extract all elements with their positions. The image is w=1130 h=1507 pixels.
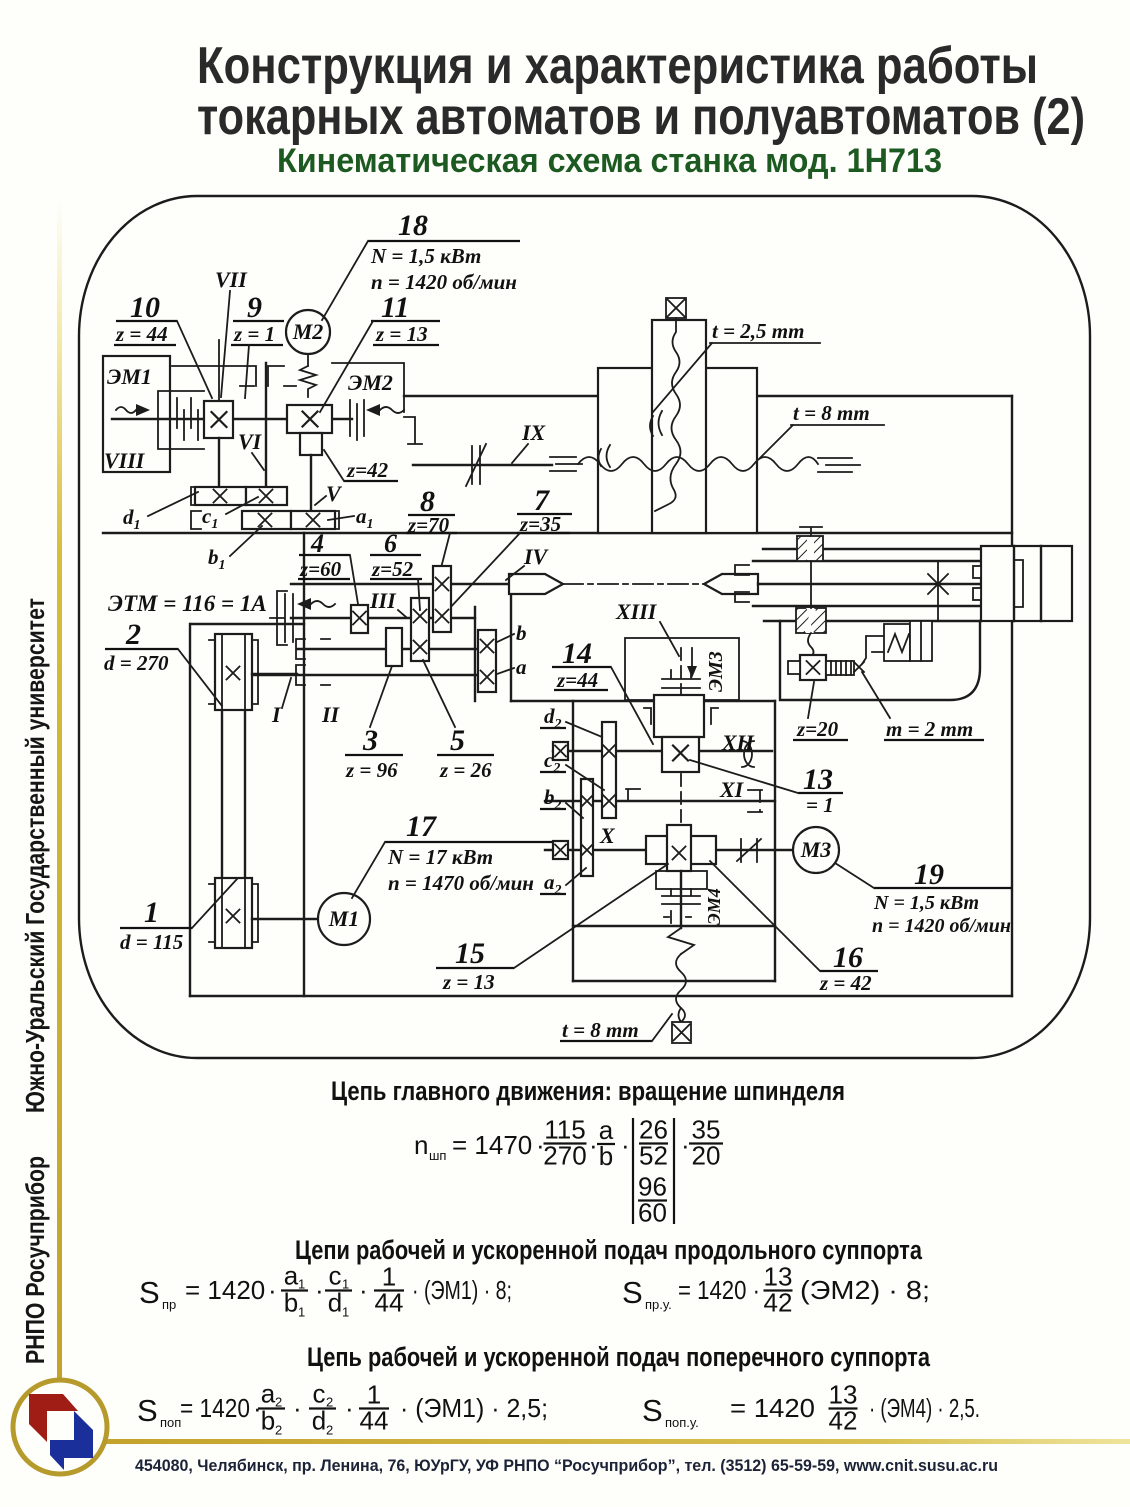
belt compartment top y=624	[191, 623, 304, 625]
svg-text:11: 11	[381, 291, 409, 324]
cross slide rail 4	[764, 620, 981, 622]
label t=8mm (top)	[760, 401, 884, 458]
EM2 feed arrow (left pointing)	[366, 404, 404, 416]
svg-text:Цепь рабочей и ускоренной пода: Цепь рабочей и ускоренной подач поперечн…	[307, 1342, 931, 1372]
svg-text:VI: VI	[238, 429, 263, 454]
vertical screw t=2.5mm (wavy)	[650, 318, 681, 511]
rack end pin	[854, 662, 864, 672]
tailstock center cone (left pointing)	[704, 574, 758, 594]
label d1	[123, 492, 198, 533]
EM2 housing	[332, 363, 404, 412]
svg-text:18: 18	[398, 209, 428, 242]
apron body outline	[780, 621, 980, 700]
formula S_pop	[137, 1379, 548, 1438]
svg-text:поп.у.: поп.у.	[665, 1415, 699, 1430]
formula S_pr	[139, 1261, 512, 1320]
EM2 clutch block (gear 11)	[287, 405, 332, 433]
EM3 housing box	[625, 638, 739, 700]
svg-text:4: 4	[310, 529, 324, 558]
shaft VII upper stem	[218, 340, 220, 401]
lock asterisk on ram	[926, 574, 950, 594]
tailstock body	[973, 546, 1072, 621]
label 17 / motor M1 data	[352, 810, 560, 898]
svg-text:·: ·	[359, 1275, 368, 1305]
svg-text:ЭМ1: ЭМ1	[107, 364, 152, 389]
label 11 / z=13	[320, 291, 440, 412]
svg-text:I: I	[271, 702, 282, 727]
formula n_shp	[414, 1115, 723, 1228]
label c1	[202, 497, 258, 532]
ETM feed arrow	[297, 598, 335, 610]
svg-text:РНПО Росучприбор: РНПО Росучприбор	[20, 1156, 50, 1364]
shaft XI	[545, 800, 775, 802]
sleeve side bearing marks	[644, 708, 718, 724]
label 10 / z=44	[114, 291, 212, 398]
svg-text:z = 96: z = 96	[345, 758, 398, 782]
svg-text:52: 52	[639, 1141, 668, 1171]
shaft III	[291, 617, 475, 619]
swap gears b/a stack	[478, 630, 496, 692]
logo blue arrow shape	[50, 1411, 93, 1470]
bearing bracket left of row1	[191, 487, 201, 529]
slip clutch on shaft X to M3	[737, 839, 761, 862]
svg-text:IX: IX	[521, 420, 547, 445]
gear row 1 right	[246, 487, 287, 505]
svg-text:z=20: z=20	[796, 717, 839, 741]
label 6 / z=52	[370, 529, 422, 610]
svg-text:·: ·	[293, 1393, 302, 1423]
svg-text:1: 1	[342, 1277, 349, 1292]
svg-text:2: 2	[326, 1423, 333, 1438]
EM4 clutch plates symbol	[662, 889, 700, 904]
svg-text:·: ·	[589, 1130, 598, 1160]
bearing bracket right of EM2	[404, 417, 422, 444]
EM4 clutch core	[667, 825, 691, 871]
label 18 / motor data	[322, 209, 520, 320]
label 3 / z=96	[345, 666, 403, 782]
svg-text:10: 10	[130, 291, 160, 324]
svg-text:15: 15	[455, 937, 485, 970]
shaft V vertical	[310, 455, 312, 511]
nut block lower (hatched)	[796, 608, 826, 633]
label 8 / z=70	[406, 485, 457, 568]
shaft VIII horizontal	[112, 418, 352, 420]
motor M2 stem and coupling zigzag	[300, 354, 316, 397]
svg-text:b: b	[599, 1141, 613, 1171]
svg-text:S: S	[642, 1393, 663, 1428]
spindle IV axis (left solid part)	[291, 583, 509, 585]
svg-text:2: 2	[275, 1395, 282, 1410]
svg-text:· (ЭМ1) · 2,5;: · (ЭМ1) · 2,5;	[400, 1393, 548, 1423]
svg-text:М3: М3	[800, 837, 832, 862]
label 9 / z=1	[231, 291, 284, 398]
gearbox top brackets	[172, 366, 296, 386]
label a	[497, 655, 527, 679]
svg-text:t = 8 mm: t = 8 mm	[793, 401, 870, 425]
gear quadrant inner wall x=475	[474, 607, 476, 701]
machine body outline (rounded contour)	[79, 196, 1090, 1058]
spindle collet cone (right pointing)	[509, 574, 563, 594]
svg-text:z=52: z=52	[371, 557, 414, 581]
shaft X	[545, 849, 793, 851]
svg-text:5: 5	[450, 724, 465, 757]
crossed anchor box (bottom)	[672, 1022, 691, 1043]
svg-text:·: ·	[268, 1275, 277, 1305]
EM1 housing box	[103, 356, 170, 472]
svg-text:3: 3	[362, 724, 378, 757]
EM1 feed arrow	[116, 404, 150, 416]
cross slide rail 1	[763, 548, 981, 550]
headstock wide block	[598, 368, 757, 533]
label b1	[208, 526, 262, 573]
shaft I	[252, 674, 478, 676]
formula S_pop.u	[642, 1380, 980, 1436]
left jaw brackets	[735, 565, 749, 602]
gear 4 (z=60) on shaft III	[351, 605, 368, 633]
yellow vertical sidebar line	[57, 200, 62, 1380]
gear z=42 below EM2 clutch	[300, 433, 322, 455]
svg-text:Цепи рабочей и ускоренной пода: Цепи рабочей и ускоренной подач продольн…	[295, 1235, 923, 1265]
slip clutch on shaft IX	[466, 444, 486, 486]
thread symbol left of leadscrew	[550, 457, 582, 471]
svg-text:М1: М1	[328, 906, 360, 931]
bearing brackets right ends XI/XII	[626, 789, 762, 812]
svg-text:шп: шп	[429, 1148, 446, 1163]
shaft pulley2 to gearbox	[252, 673, 297, 675]
svg-text:z=42: z=42	[346, 458, 389, 482]
logo red arrow shape	[29, 1394, 78, 1442]
svg-text:VIII: VIII	[104, 448, 146, 473]
svg-text:14: 14	[562, 637, 592, 670]
svg-text:z = 13: z = 13	[442, 970, 495, 994]
label z=20	[793, 682, 848, 741]
gear row 1 left (c1 gear)	[195, 487, 246, 505]
svg-text:t = 8 mm: t = 8 mm	[562, 1018, 639, 1042]
gear row 2 left (b1 gear)	[242, 511, 291, 529]
EM1 clutch housing bracket	[158, 391, 204, 449]
svg-text:М2: М2	[292, 319, 324, 344]
svg-text:c: c	[329, 1261, 342, 1291]
svg-text:44: 44	[375, 1288, 404, 1318]
label a1	[328, 504, 374, 532]
EM3 engage arrow	[687, 648, 697, 678]
nut block upper (hatched)	[797, 536, 823, 561]
svg-text:пр: пр	[162, 1297, 176, 1312]
EM4 lower housing	[656, 871, 707, 889]
svg-text:ЭМ3: ЭМ3	[705, 651, 727, 692]
gear 6/5 stack (z=52 / z=26)	[411, 598, 429, 661]
svg-text:·: ·	[621, 1130, 630, 1160]
university logo: yellow ring	[13, 1380, 107, 1474]
screw coupling zigzag	[668, 928, 694, 954]
label a2	[540, 868, 586, 898]
svg-text:·: ·	[681, 1130, 690, 1160]
svg-text:270: 270	[543, 1141, 586, 1171]
svg-text:16: 16	[833, 941, 863, 974]
svg-text:Южно-Уральский Государственный: Южно-Уральский Государственный университ…	[20, 598, 50, 1113]
svg-text:V: V	[326, 481, 343, 506]
svg-text:поп: поп	[160, 1415, 181, 1430]
svg-text:t = 2,5 mm: t = 2,5 mm	[712, 319, 804, 343]
svg-text:z = 13: z = 13	[375, 322, 428, 346]
tailstock ram axis	[758, 583, 1060, 585]
svg-text:IV: IV	[523, 544, 550, 569]
svg-text:42: 42	[764, 1288, 793, 1318]
svg-text:z = 26: z = 26	[439, 758, 492, 782]
gear 3 (z=96) block on shaft II	[386, 628, 402, 666]
svg-text:N = 17 кВт: N = 17 кВт	[387, 845, 493, 869]
svg-text:b: b	[516, 621, 527, 645]
svg-text:d: d	[312, 1406, 326, 1436]
svg-text:III: III	[369, 588, 397, 613]
svg-text:2: 2	[326, 1395, 333, 1410]
swap gear column rect G1 (d2/c2)	[602, 722, 616, 818]
spring preload unit	[862, 621, 932, 664]
label XIII	[615, 599, 679, 656]
svg-text:Кинематическая схема станка мо: Кинематическая схема станка мод. 1Н713	[277, 142, 942, 180]
svg-text:n = 1470 об/мин: n = 1470 об/мин	[388, 871, 534, 895]
label III	[369, 588, 406, 617]
bearing bracket right of row2	[330, 511, 339, 529]
svg-text:z = 44: z = 44	[115, 322, 168, 346]
svg-text:19: 19	[914, 858, 944, 891]
svg-text:17: 17	[406, 810, 437, 843]
svg-text:20: 20	[692, 1141, 721, 1171]
motor M2	[286, 310, 330, 354]
screw wavy vertical (t=8mm bottom)	[676, 954, 686, 1022]
svg-text:S: S	[139, 1275, 160, 1310]
ETM clutch brackets on shaft III	[270, 591, 293, 645]
label 15 / z=13	[436, 864, 668, 994]
shaft VII vertical	[218, 438, 220, 487]
headstock tower column	[652, 320, 706, 533]
yellow horizontal footer line	[106, 1439, 1130, 1444]
pulley 2 (d=270, top)	[209, 634, 258, 710]
svg-text:1: 1	[298, 1277, 305, 1292]
cross screw vertical	[808, 561, 814, 657]
svg-text:d: d	[328, 1288, 342, 1318]
label 19 / motor M3 data	[835, 858, 1012, 937]
label z=42	[324, 450, 398, 482]
svg-text:= 1: = 1	[806, 793, 834, 817]
svg-text:z=44: z=44	[556, 668, 598, 692]
coupling arcs right of clutch	[742, 741, 754, 767]
housing left wall x=190	[189, 624, 191, 996]
svg-text:b: b	[284, 1288, 298, 1318]
svg-text:токарных автоматов и полуавтом: токарных автоматов и полуавтоматов (2)	[197, 88, 1085, 146]
feed box top wall y=701	[511, 700, 775, 702]
svg-text:XIII: XIII	[615, 599, 658, 624]
svg-text:60: 60	[638, 1198, 667, 1228]
cross slide rail 2	[753, 560, 981, 562]
gear row 2 right (a1 gear)	[291, 511, 335, 529]
feed box shelf y=926	[573, 925, 775, 927]
svg-text:a: a	[284, 1261, 299, 1291]
shaft-end gear XII left	[553, 742, 568, 760]
label 4 / z=60	[298, 529, 358, 604]
leadscrew t=8mm horizontal wavy line	[578, 445, 818, 471]
pulley 1 (d=115, bottom)	[209, 878, 258, 948]
svg-text:X: X	[599, 823, 616, 848]
svg-text:6: 6	[384, 529, 397, 558]
svg-text:= 1420: = 1420	[180, 1393, 250, 1423]
svg-text:1: 1	[342, 1305, 349, 1320]
svg-text:m = 2 mm: m = 2 mm	[886, 717, 973, 741]
EM4 clutch wings	[646, 836, 716, 864]
EM4 lower marks	[664, 911, 691, 923]
svg-text:VII: VII	[215, 267, 248, 292]
cross slide rail 3	[753, 605, 981, 607]
svg-text:9: 9	[247, 291, 262, 324]
svg-text:S: S	[622, 1275, 643, 1310]
svg-text:N = 1,5 кВт: N = 1,5 кВт	[873, 892, 979, 914]
svg-text:XII: XII	[721, 730, 755, 755]
label b2	[540, 785, 583, 818]
svg-text:= 1420: = 1420	[730, 1393, 815, 1423]
shaft XII	[553, 750, 772, 752]
screw T-handle	[800, 527, 822, 536]
partition wall x=304 (belt compartment)	[303, 533, 305, 996]
swap gear column rect G2 (b2/a2)	[581, 779, 593, 876]
motor M1	[318, 893, 370, 945]
belt (two vertical runs)	[222, 640, 245, 940]
svg-text:· (ЭМ1) · 8;: · (ЭМ1) · 8;	[412, 1275, 512, 1305]
label V	[315, 481, 343, 506]
label t=8mm (bottom)	[560, 1014, 672, 1042]
label c2	[540, 748, 604, 790]
svg-text:2: 2	[275, 1423, 282, 1438]
formula S_pr.u	[622, 1262, 930, 1318]
svg-text:454080, Челябинск, пр. Ленина,: 454080, Челябинск, пр. Ленина, 76, ЮУрГУ…	[135, 1456, 998, 1475]
housing main horizontal wall y=533	[103, 532, 1012, 534]
label VII	[215, 267, 248, 397]
svg-text:1: 1	[144, 896, 159, 929]
EM3 clutch plates symbol	[662, 670, 700, 688]
gear block 10 on shaft VII	[204, 401, 233, 438]
label b	[497, 621, 527, 645]
saddle post line	[937, 562, 939, 620]
svg-text:b: b	[261, 1406, 275, 1436]
label VI	[238, 429, 264, 470]
svg-text:п = 1420 об/мин: п = 1420 об/мин	[371, 270, 517, 294]
bearing brackets shafts I/II	[296, 639, 330, 685]
svg-text:13: 13	[803, 763, 833, 796]
svg-text:ЭМ2: ЭМ2	[348, 370, 393, 395]
label 7 / z=35	[448, 484, 572, 610]
housing bottom wall y=996	[190, 995, 1012, 997]
svg-text:Конструкция и характеристика р: Конструкция и характеристика работы	[197, 37, 1038, 95]
shaft VI vertical	[265, 363, 267, 487]
rack m=2mm	[826, 661, 854, 675]
svg-text:(ЭМ2) · 8;: (ЭМ2) · 8;	[800, 1275, 930, 1305]
svg-text:ЭМ4: ЭМ4	[704, 888, 724, 925]
svg-text:·: ·	[315, 1275, 324, 1305]
feed box left wall x=573	[572, 701, 574, 981]
feed box bottom wall y=981	[573, 980, 775, 982]
clutch XII upper sleeve	[654, 695, 704, 737]
EM2 friction plates	[350, 400, 364, 440]
crossed anchor box (top of vertical screw t=2.5)	[666, 298, 686, 318]
svg-text:44: 44	[360, 1406, 389, 1436]
headstock top wall y=396 left segment	[404, 395, 598, 397]
svg-text:d = 115: d = 115	[120, 930, 183, 954]
svg-text:z = 42: z = 42	[819, 971, 872, 995]
svg-text:ЭТМ = 116 = 1А: ЭТМ = 116 = 1А	[108, 591, 267, 616]
svg-text:1: 1	[298, 1305, 305, 1320]
label 2 / d=270	[104, 618, 222, 706]
spindle axis dash-dot	[563, 583, 704, 585]
svg-text:z = 1: z = 1	[233, 322, 275, 346]
svg-text:c: c	[313, 1379, 326, 1409]
label 14 / z=44	[552, 637, 653, 744]
svg-text:· (ЭМ4) · 2,5.: · (ЭМ4) · 2,5.	[869, 1393, 980, 1423]
svg-text:z=60: z=60	[299, 557, 342, 581]
svg-text:S: S	[137, 1393, 158, 1428]
svg-text:= 1420: = 1420	[185, 1275, 265, 1305]
label I	[271, 678, 291, 727]
label IV	[506, 544, 550, 580]
label IX	[512, 420, 547, 463]
shaft-end gear X left	[553, 841, 568, 859]
housing right wall x=1012	[1011, 396, 1013, 996]
shaft II	[297, 648, 478, 650]
shaft IX horizontal	[413, 464, 552, 466]
svg-text:42: 42	[829, 1406, 858, 1436]
svg-text:a: a	[261, 1379, 276, 1409]
svg-text:n: n	[414, 1130, 428, 1160]
clutch 13 on shaft XII	[662, 737, 699, 772]
svg-text:N = 1,5 кВт: N = 1,5 кВт	[370, 244, 481, 268]
svg-text:·: ·	[345, 1393, 354, 1423]
svg-text:d = 270: d = 270	[104, 651, 169, 675]
thread symbol right of leadscrew	[818, 458, 860, 472]
svg-text:II: II	[321, 702, 341, 727]
screw shaft below EM4	[680, 871, 682, 928]
shaft pulley1 to motor M1	[252, 918, 318, 920]
label d2	[540, 704, 602, 737]
svg-text:Цепь главного движения: вращен: Цепь главного движения: вращение шпиндел…	[331, 1076, 845, 1106]
feed box right wall x=775	[774, 701, 776, 981]
gear 7/8 stack (z=35 / z=70)	[433, 566, 451, 632]
label 1 / d=115	[120, 879, 237, 954]
gear z=20	[788, 655, 826, 680]
motor M3	[793, 827, 839, 873]
label 5 / z=26	[423, 660, 494, 782]
svg-text:= 1470: = 1470	[452, 1130, 532, 1160]
headstock top wall y=396 right segment	[757, 395, 1012, 397]
gear quadrant box right wall x=511	[510, 584, 512, 701]
svg-text:XI: XI	[719, 777, 745, 802]
label t=2.5mm	[653, 319, 820, 412]
label 13 / =1	[690, 760, 843, 817]
svg-text:пр.у.: пр.у.	[645, 1297, 672, 1312]
svg-text:a: a	[516, 655, 527, 679]
label m=2mm	[862, 672, 984, 741]
svg-text:п = 1420 об/мин: п = 1420 об/мин	[872, 915, 1011, 937]
shaft XIII dashed vertical	[680, 648, 682, 926]
svg-text:2: 2	[125, 618, 141, 651]
label 16 / z=42	[710, 861, 878, 995]
EM1 clutch friction plates	[177, 398, 198, 440]
svg-text:= 1420 ·: = 1420 ·	[678, 1275, 760, 1305]
